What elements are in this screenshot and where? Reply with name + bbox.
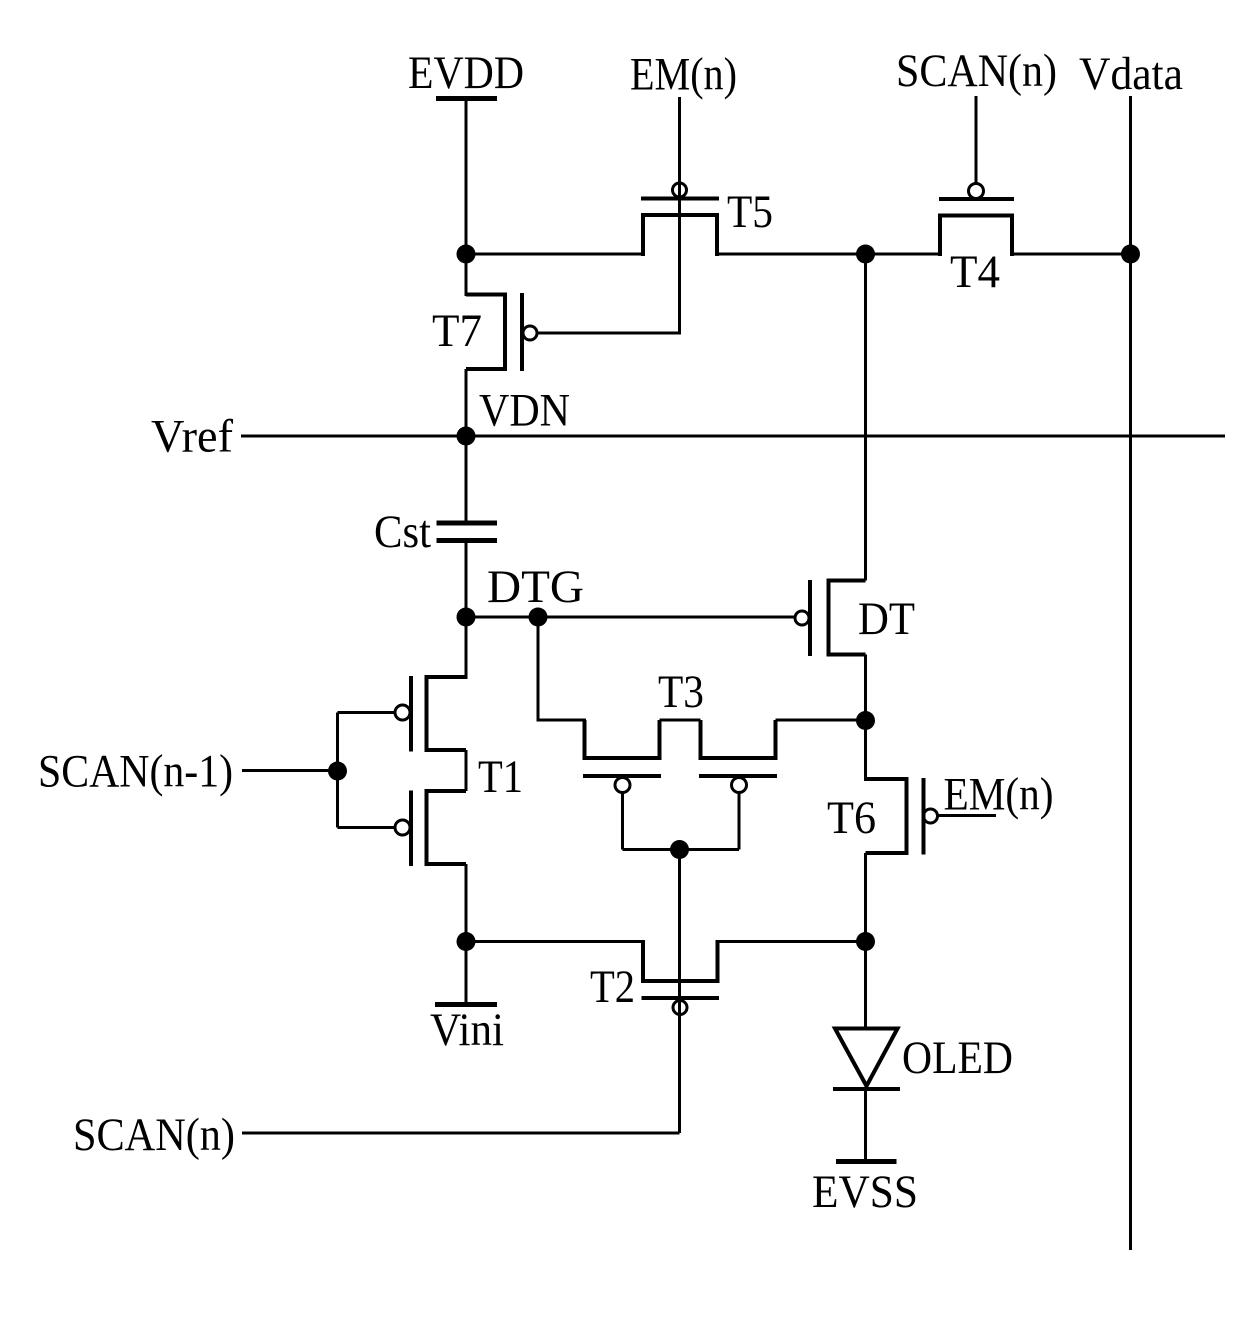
svg-text:SCAN(n): SCAN(n) xyxy=(896,45,1057,97)
svg-text:T7: T7 xyxy=(432,305,482,357)
diode OLED xyxy=(833,1029,1013,1090)
transistor DT xyxy=(795,580,915,656)
wire SCAN(n) to T4 gate xyxy=(975,96,978,184)
node DTG xyxy=(457,561,585,627)
svg-text:EM(n): EM(n) xyxy=(944,769,1054,821)
capacitor Cst xyxy=(374,506,497,558)
junction node OLED anode xyxy=(856,932,875,951)
wire T3 gates to SCAN(n) xyxy=(678,850,681,1134)
node VDN xyxy=(479,385,570,437)
svg-text:T2: T2 xyxy=(590,961,635,1013)
transistor T2 xyxy=(590,940,719,1015)
svg-text:SCAN(n-1): SCAN(n-1) xyxy=(38,746,233,798)
junction node VDN on Vref xyxy=(457,427,476,446)
svg-text:Vref: Vref xyxy=(151,411,233,463)
svg-text:T4: T4 xyxy=(950,246,1000,298)
transistor T5 xyxy=(641,183,773,256)
svg-text:T3: T3 xyxy=(658,666,704,718)
wire OLED anode xyxy=(864,942,867,1029)
wire DT drain to top rail xyxy=(864,254,867,581)
bus Vdata vertical line xyxy=(1129,96,1132,1250)
wire top rail middle segment xyxy=(717,253,940,256)
wire T7 to Vref node xyxy=(465,369,468,437)
transistor T4 xyxy=(939,184,1014,299)
svg-text:SCAN(n): SCAN(n) xyxy=(73,1109,235,1161)
terminal Vini xyxy=(430,942,504,1057)
junction node T1 gates xyxy=(328,762,347,781)
junction node Vini rail xyxy=(457,932,476,951)
svg-text:OLED: OLED xyxy=(902,1032,1013,1084)
svg-text:T6: T6 xyxy=(827,792,876,844)
net label SCAN(n-1) xyxy=(38,746,338,798)
wire DTG to DT gate xyxy=(466,616,795,619)
junction node Vdata xyxy=(1121,245,1140,264)
wire bottom rail right xyxy=(718,940,866,943)
net Vref xyxy=(151,411,1225,463)
svg-text:DTG: DTG xyxy=(487,561,584,613)
svg-text:T5: T5 xyxy=(727,186,773,238)
net label SCAN(n) row n xyxy=(73,1109,680,1161)
terminal EVSS xyxy=(812,1162,918,1219)
junction node top of DT branch xyxy=(856,245,875,264)
svg-text:EVSS: EVSS xyxy=(812,1166,918,1218)
svg-text:Cst: Cst xyxy=(374,506,431,558)
svg-text:EM(n): EM(n) xyxy=(630,49,737,101)
svg-text:DT: DT xyxy=(858,593,915,645)
transistor T1 xyxy=(338,617,524,942)
svg-text:T1: T1 xyxy=(478,751,523,803)
wire DTG to T3 xyxy=(538,617,586,720)
wire EM(n) to T5 gate and T7 gate xyxy=(538,97,680,333)
wire OLED cathode to EVSS xyxy=(864,1090,867,1161)
junction node T3 gates xyxy=(670,840,689,859)
wire top rail left segment xyxy=(466,253,643,256)
svg-text:EVDD: EVDD xyxy=(408,47,524,99)
transistor T3 xyxy=(583,666,866,850)
transistor T7 xyxy=(432,254,537,371)
net label EVDD xyxy=(408,47,524,99)
transistor T6 xyxy=(827,721,996,942)
svg-text:Vdata: Vdata xyxy=(1079,48,1183,100)
wire Cst to DTG node xyxy=(465,543,468,617)
svg-text:Vini: Vini xyxy=(430,1004,504,1056)
wire EVDD to top rail xyxy=(465,99,468,256)
svg-text:VDN: VDN xyxy=(479,385,570,437)
wire top rail right segment xyxy=(1012,253,1131,256)
wire DT source to node xyxy=(864,655,867,721)
wire Vref node to Cst xyxy=(465,436,468,521)
wire bottom rail left xyxy=(466,940,643,943)
junction node DT source / T3 / T6 xyxy=(856,711,875,730)
junction node EVDD rail xyxy=(457,245,476,264)
